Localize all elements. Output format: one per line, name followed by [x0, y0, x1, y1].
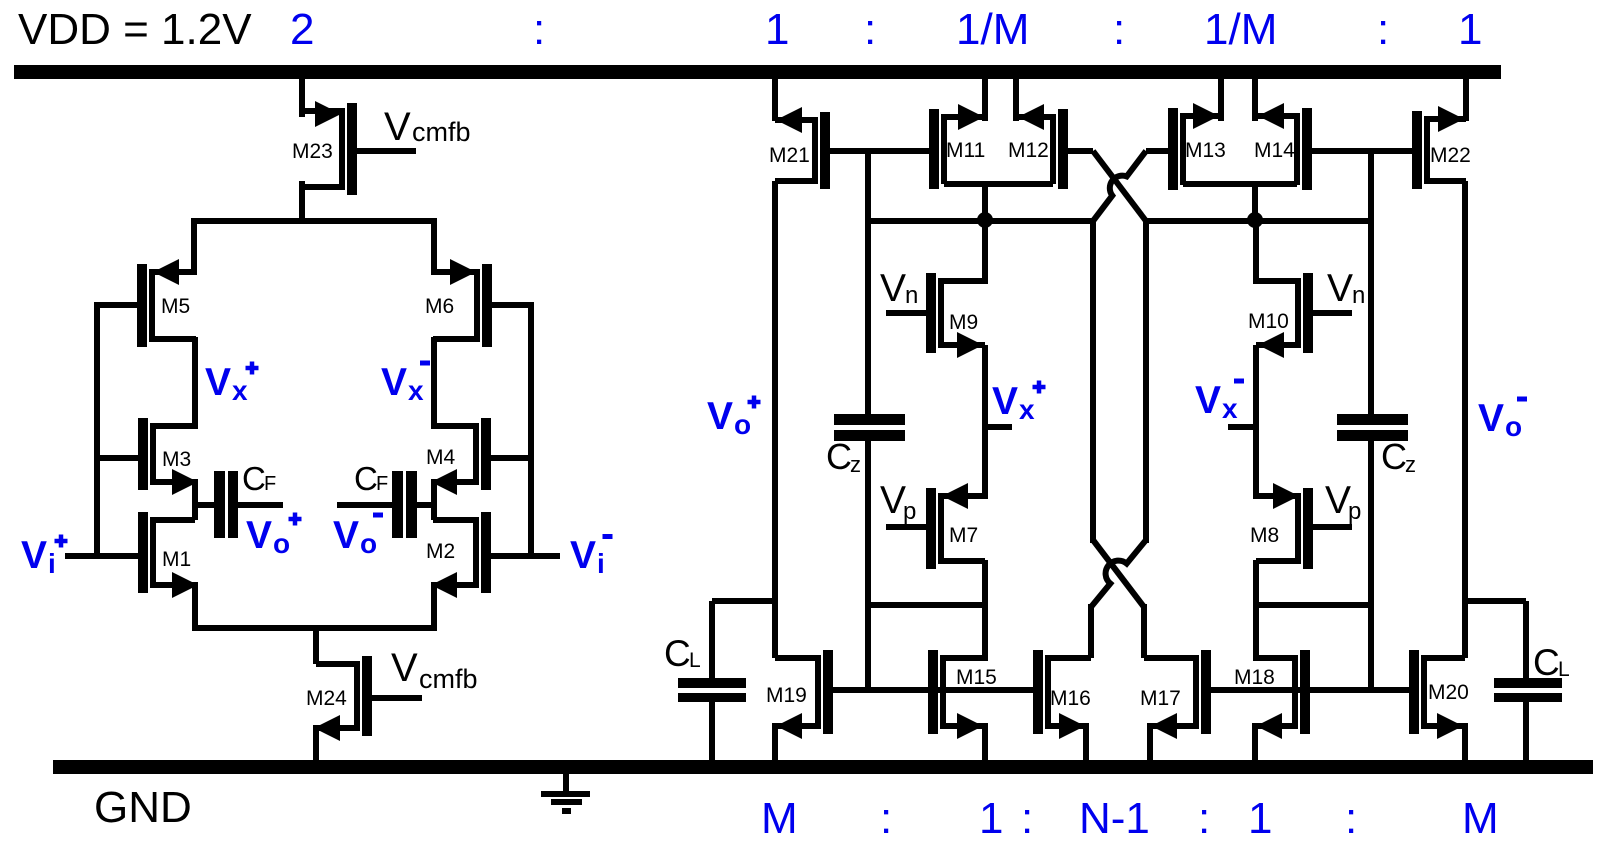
capacitor CL right — [1494, 601, 1562, 760]
svg-text:1: 1 — [765, 5, 789, 54]
svg-text:C: C — [826, 436, 852, 477]
svg-text:o: o — [273, 528, 290, 559]
transistor M13 — [1146, 103, 1226, 190]
svg-text:z: z — [850, 452, 861, 477]
svg-text::: : — [1198, 794, 1210, 843]
svg-text:V: V — [391, 646, 418, 690]
wire to M16 drain — [1088, 604, 1094, 658]
wire M7 drain to gate bus — [868, 602, 985, 608]
svg-text:p: p — [1348, 498, 1361, 525]
svg-text::: : — [1377, 5, 1389, 54]
svg-text:n: n — [1352, 282, 1365, 309]
CL label left — [664, 633, 701, 674]
transistor M4 — [426, 418, 531, 495]
Vn label left — [880, 267, 918, 310]
svg-text:1: 1 — [1458, 5, 1482, 54]
svg-text:M5: M5 — [161, 295, 190, 318]
svg-text:M2: M2 — [426, 540, 455, 563]
svg-text::: : — [880, 794, 892, 843]
svg-text:L: L — [689, 649, 701, 672]
svg-text::: : — [864, 5, 876, 54]
ground symbol — [541, 774, 590, 814]
svg-text:M10: M10 — [1248, 310, 1289, 333]
node Vo+ label — [707, 395, 761, 440]
CL label right — [1533, 642, 1570, 683]
svg-text:V: V — [333, 514, 359, 557]
svg-text:C: C — [664, 633, 691, 674]
top ratio 1/M label — [956, 5, 1029, 54]
svg-text:M6: M6 — [425, 295, 454, 318]
Vp label left — [880, 479, 916, 525]
wire M19 source to GND — [772, 723, 778, 760]
wire M2 source down — [431, 582, 437, 631]
transistor M6 — [425, 259, 531, 347]
wire M13 M14 common drain — [1183, 181, 1297, 220]
wire M1 source down — [192, 582, 198, 631]
svg-text:M: M — [1462, 794, 1499, 843]
wire M16 source to GND — [1083, 723, 1089, 760]
wire M22 source from VDD — [1463, 79, 1469, 121]
wire Vx- vertical M6-M4 — [431, 337, 437, 429]
transistor M1 — [138, 512, 198, 598]
svg-text:V: V — [384, 105, 411, 149]
svg-text:V: V — [381, 361, 407, 404]
svg-text:1: 1 — [979, 794, 1003, 843]
top ratio 2 label — [290, 5, 314, 54]
svg-text::: : — [1021, 794, 1033, 843]
transistor M5 — [97, 259, 196, 347]
top colon label — [533, 5, 545, 54]
svg-text:M3: M3 — [162, 448, 191, 471]
transistor M9 — [886, 273, 985, 358]
wire cross-coupling top diagonal A — [1093, 151, 1146, 221]
wire M15 source to GND — [982, 723, 988, 760]
wire M14 source from VDD — [1252, 79, 1258, 121]
svg-text:V: V — [1327, 267, 1353, 310]
svg-text:C: C — [1381, 436, 1407, 477]
wire M11 source from VDD — [982, 79, 988, 121]
bottom colon label — [1345, 794, 1357, 843]
svg-text:V: V — [1478, 397, 1504, 440]
Cz label left — [826, 436, 861, 477]
svg-text:M12: M12 — [1008, 139, 1049, 162]
svg-text:M13: M13 — [1185, 139, 1226, 162]
wire tail node horizontal — [192, 625, 437, 631]
svg-text:V: V — [570, 534, 596, 577]
transistor M15 — [928, 650, 997, 739]
wire M13 source from VDD — [1218, 79, 1224, 121]
svg-text:M18: M18 — [1234, 666, 1275, 689]
capacitor CL left — [678, 601, 746, 760]
wire M9 source to M7 source — [982, 345, 988, 499]
wire cross-coupling bottom diagonal A — [1093, 540, 1144, 607]
wire cross node A vertical — [1090, 218, 1096, 543]
top ratio 1 label — [1458, 5, 1482, 54]
svg-text:x: x — [408, 375, 424, 406]
wire right gate bus vertical upper — [1368, 151, 1374, 414]
wire M19-M15-M16 gate line — [833, 687, 1033, 693]
top colon label — [1377, 5, 1389, 54]
svg-text:M7: M7 — [949, 524, 978, 547]
svg-text:M19: M19 — [766, 684, 807, 707]
wire M20 source to GND — [1462, 723, 1468, 760]
wire left gate bus vertical upper — [865, 151, 871, 414]
capacitor Cz right — [1337, 414, 1408, 441]
top ratio 1 label — [765, 5, 789, 54]
transistor M18 — [1234, 650, 1310, 739]
wire M4 source to M2 drain — [431, 479, 437, 520]
wire cross node B vertical — [1143, 218, 1149, 543]
svg-text:M14: M14 — [1254, 139, 1295, 162]
bottom ratio 1 label — [979, 794, 1003, 843]
svg-text:i: i — [597, 548, 605, 579]
transistor M2 — [426, 512, 560, 598]
transistor M24 — [306, 656, 422, 741]
svg-text:2: 2 — [290, 5, 314, 54]
wire M21-M11 gate line — [830, 148, 930, 154]
transistor M20 — [1409, 650, 1469, 739]
transistor M23 — [292, 101, 416, 195]
wire M24 drain from tail — [313, 625, 319, 664]
node Vo- label — [1478, 397, 1527, 443]
node Vi- label — [570, 534, 613, 579]
Vcmfb label upper — [384, 105, 471, 149]
transistor M14 — [1254, 103, 1371, 190]
wire M17 source to GND — [1147, 723, 1153, 760]
svg-text:x: x — [1222, 393, 1238, 424]
wire M21 source from VDD — [772, 79, 778, 121]
svg-text::: : — [1113, 5, 1125, 54]
svg-text:M20: M20 — [1428, 681, 1469, 704]
svg-text:V: V — [246, 514, 272, 557]
GND label — [94, 783, 192, 832]
node Vx- label left — [381, 361, 430, 407]
wire left gate bus vertical — [94, 302, 100, 559]
transistor M3 — [97, 418, 198, 495]
svg-text:o: o — [1505, 411, 1522, 442]
svg-text:M23: M23 — [292, 140, 333, 163]
svg-text:N-1: N-1 — [1079, 794, 1150, 843]
svg-text:M15: M15 — [956, 666, 997, 689]
wire dot to M9 drain — [982, 220, 988, 284]
wire left gate bus vertical lower — [865, 441, 871, 693]
svg-text:C: C — [242, 460, 266, 497]
VDD power rail — [14, 65, 1501, 79]
wire M22 drain to M20 drain (Vo-) — [1462, 181, 1468, 658]
Cz label right — [1381, 436, 1416, 477]
node Vi+ label — [21, 534, 68, 579]
wire right gate bus vertical — [528, 302, 534, 559]
svg-text:V: V — [880, 267, 906, 310]
svg-text:C: C — [354, 460, 378, 497]
svg-text:M: M — [761, 794, 798, 843]
wire M23 drain from VDD — [299, 79, 305, 117]
svg-text:o: o — [360, 528, 377, 559]
wire Vx+ vertical M5-M3 — [192, 337, 198, 429]
wire split node horizontal — [192, 218, 436, 224]
transistor M10 — [1248, 273, 1352, 358]
wire M7 drain down — [982, 560, 988, 661]
wire M24 source to GND — [313, 725, 319, 760]
svg-text:M16: M16 — [1050, 687, 1091, 710]
transistor M12 — [1008, 104, 1093, 189]
svg-text:z: z — [1405, 452, 1416, 477]
svg-text:V: V — [21, 534, 47, 577]
node Vx- stub — [1228, 424, 1256, 430]
svg-text:M17: M17 — [1140, 687, 1181, 710]
node Vx+ stub — [985, 424, 1012, 430]
top colon label — [1113, 5, 1125, 54]
svg-text:M22: M22 — [1430, 144, 1471, 167]
svg-text:M9: M9 — [949, 311, 978, 334]
svg-text:x: x — [1019, 394, 1035, 425]
svg-text:C: C — [1533, 642, 1560, 683]
transistor M17 — [1140, 650, 1211, 739]
svg-text:V: V — [205, 361, 231, 404]
svg-text:i: i — [48, 548, 56, 579]
bottom ratio M label — [1462, 794, 1499, 843]
wire right branch down — [431, 218, 437, 275]
svg-text:GND: GND — [94, 783, 192, 832]
svg-text:F: F — [376, 473, 388, 495]
svg-text:p: p — [903, 498, 916, 525]
svg-text:L: L — [1558, 658, 1570, 681]
svg-text:cmfb: cmfb — [412, 117, 471, 147]
bottom colon label — [1198, 794, 1210, 843]
svg-text:1/M: 1/M — [1204, 5, 1277, 54]
CF label right — [354, 460, 388, 497]
svg-text:o: o — [734, 409, 751, 440]
node Vx+ label right — [992, 380, 1046, 425]
wire right gate bus vertical lower — [1368, 441, 1374, 693]
transistor M8 — [1250, 483, 1352, 569]
wire cross-coupling bottom diagonal B with hop — [1091, 540, 1146, 607]
bottom colon label — [1021, 794, 1033, 843]
GND power rail — [53, 760, 1593, 774]
svg-text::: : — [533, 5, 545, 54]
CF label left — [242, 460, 276, 497]
svg-text:V: V — [707, 395, 733, 438]
svg-text:F: F — [264, 473, 276, 495]
bottom ratio M label — [761, 794, 798, 843]
node left mirror junction dot — [977, 212, 993, 228]
transistor M16 — [1033, 650, 1091, 739]
bottom ratio N-1 label — [1079, 794, 1150, 843]
wire Vi+ input lead — [65, 553, 138, 559]
transistor M7 — [886, 483, 985, 569]
node Vo- label left — [333, 513, 383, 560]
transistor M22 — [1371, 106, 1471, 189]
wire dot to M10 drain — [1253, 220, 1259, 284]
transistor M11 — [929, 104, 985, 189]
svg-text:V: V — [1195, 379, 1221, 422]
wire CL right tap — [1465, 598, 1526, 604]
svg-text:M8: M8 — [1250, 524, 1279, 547]
svg-text:n: n — [905, 282, 918, 309]
Vcmfb label lower — [391, 646, 478, 694]
wire M3 source to M1 drain — [192, 479, 198, 520]
wire left diode node horizontal — [865, 218, 1093, 224]
svg-text:1: 1 — [1248, 794, 1272, 843]
capacitor Cz left — [834, 414, 905, 441]
wire cross-coupling top diagonal B with hop — [1093, 151, 1146, 221]
capacitor CF right — [337, 471, 434, 538]
wire M8 drain down — [1253, 560, 1259, 661]
svg-text:V: V — [992, 380, 1018, 423]
node Vx+ label left — [205, 361, 259, 406]
node Vx- label right — [1195, 379, 1244, 425]
svg-text:M21: M21 — [769, 144, 810, 167]
wire right diode node horizontal — [1146, 218, 1374, 224]
wire M21 drain to M19 drain (Vo+) — [772, 181, 778, 658]
wire M8 drain to gate bus — [1256, 602, 1371, 608]
bottom ratio 1 label — [1248, 794, 1272, 843]
wire to M17 drain — [1141, 604, 1147, 658]
wire left branch down — [191, 218, 197, 275]
svg-text:1/M: 1/M — [956, 5, 1029, 54]
Vn label right — [1327, 267, 1365, 310]
Vp label right — [1325, 479, 1361, 525]
svg-text:cmfb: cmfb — [419, 664, 478, 694]
VDD label — [18, 5, 252, 54]
svg-text:M1: M1 — [162, 548, 191, 571]
wire CL left tap — [712, 598, 775, 604]
node Vo+ label left — [246, 513, 302, 560]
transistor M21 — [769, 107, 830, 189]
wire M11 M12 common drain — [944, 181, 1053, 220]
svg-text:M4: M4 — [426, 446, 455, 469]
svg-text:VDD = 1.2V: VDD = 1.2V — [18, 5, 252, 54]
node right mirror junction dot — [1247, 212, 1263, 228]
bottom colon label — [880, 794, 892, 843]
wire M23 source down — [299, 181, 305, 224]
capacitor CF left — [196, 471, 283, 538]
wire M10 source to M8 source — [1253, 345, 1259, 499]
svg-text:M24: M24 — [306, 687, 347, 710]
svg-text::: : — [1345, 794, 1357, 843]
wire M18 source to GND — [1252, 723, 1258, 760]
top ratio 1/M label — [1204, 5, 1277, 54]
top colon label — [864, 5, 876, 54]
wire M17-M18-M20 gate line — [1211, 687, 1409, 693]
transistor M19 — [766, 650, 833, 739]
svg-text:M11: M11 — [946, 139, 985, 162]
wire M12 source from VDD — [1013, 79, 1019, 121]
svg-text:x: x — [232, 375, 248, 406]
